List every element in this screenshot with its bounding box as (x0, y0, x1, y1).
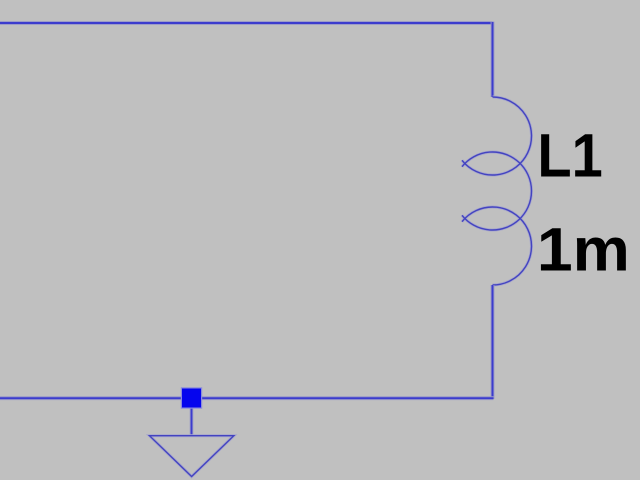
wire right vertical lower (491, 285, 495, 399)
label L1 (537, 122, 602, 190)
wire bottom horizontal (0, 396, 494, 400)
wire right vertical upper (491, 22, 495, 98)
wire ground stub (190, 398, 194, 436)
wire top horizontal (0, 21, 493, 25)
ground symbol (150, 436, 234, 477)
inductor L1 symbol arcs (462, 97, 532, 285)
node junction square (182, 388, 202, 408)
svg-text:1m: 1m (537, 216, 630, 284)
svg-text:L1: L1 (537, 122, 602, 190)
label 1m (537, 216, 630, 284)
